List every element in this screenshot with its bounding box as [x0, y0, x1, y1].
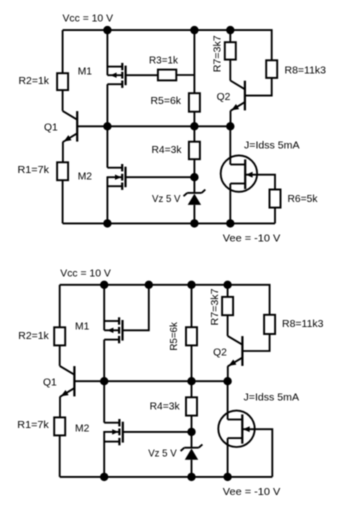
wire	[191, 416, 193, 448]
svg-text:Vcc = 10 V: Vcc = 10 V	[63, 14, 114, 25]
wire	[74, 380, 227, 382]
junction Q1 base mid rail (bottom)	[101, 378, 108, 385]
transistor Q1 (bottom)	[73, 366, 75, 396]
wire	[126, 176, 195, 178]
junction R5/R4 mid rail (bottom)	[188, 378, 195, 385]
wire	[59, 345, 61, 366]
svg-text:R8=11k3: R8=11k3	[285, 65, 327, 76]
junction R5/Vcc rail (bottom)	[188, 281, 195, 288]
wire	[191, 345, 193, 381]
svg-text:R4=3k: R4=3k	[152, 145, 183, 156]
wire	[103, 285, 105, 331]
JFET J (top)	[221, 155, 257, 191]
transistor Q1 (top)	[76, 111, 78, 142]
wire	[77, 125, 230, 127]
wire	[59, 285, 61, 328]
wire	[103, 381, 105, 423]
junction R5/R4 mid rail (top)	[191, 123, 198, 130]
wire	[245, 175, 275, 190]
svg-text:R2=1k: R2=1k	[19, 76, 50, 87]
svg-text:R6=5k: R6=5k	[288, 194, 319, 205]
svg-text:R1=7k: R1=7k	[17, 420, 49, 431]
wire	[106, 126, 108, 167]
wire	[274, 208, 276, 224]
svg-text:Vcc = 10 V: Vcc = 10 V	[60, 268, 111, 279]
resistor R8 (top)	[266, 60, 277, 78]
resistor R6 (top)	[270, 190, 281, 208]
wire	[193, 159, 195, 193]
svg-text:Q2: Q2	[217, 92, 231, 103]
svg-text:R8=11k3: R8=11k3	[282, 319, 324, 330]
svg-text:J=Idss 5mA: J=Idss 5mA	[244, 392, 300, 403]
wire	[191, 381, 193, 397]
wire	[63, 30, 272, 60]
resistor R3 (top)	[158, 70, 176, 81]
wire	[191, 460, 193, 477]
svg-text:R1=7k: R1=7k	[18, 165, 50, 176]
wire	[193, 126, 195, 141]
junction R7/Vcc rail (top)	[227, 26, 234, 33]
svg-text:R7=3k7: R7=3k7	[213, 35, 224, 72]
wire	[191, 285, 193, 327]
svg-text:M2: M2	[78, 172, 93, 183]
wire	[126, 74, 158, 76]
wire	[193, 205, 195, 224]
svg-text:Vee = -10 V: Vee = -10 V	[223, 487, 281, 498]
wire	[103, 431, 105, 477]
wire	[62, 90, 64, 111]
wire	[62, 180, 64, 223]
svg-text:Vee = -10 V: Vee = -10 V	[223, 233, 281, 244]
svg-text:Vz 5 V: Vz 5 V	[152, 194, 181, 205]
wire	[60, 285, 270, 315]
junction R5/Vcc rail (top)	[191, 26, 198, 33]
wire	[103, 340, 105, 382]
zener diode Vz (top)	[187, 192, 201, 194]
wire	[63, 222, 275, 224]
junction Q1 base mid rail (top)	[104, 123, 111, 130]
junction JFET source/Vee rail (top)	[227, 220, 234, 227]
wire	[245, 78, 272, 96]
wire	[227, 366, 229, 381]
resistor R4 (bottom)	[186, 397, 197, 415]
wire	[106, 176, 108, 223]
resistor R7 (bottom)	[222, 297, 233, 315]
svg-text:M1: M1	[75, 322, 90, 333]
junction zener anode/Vee rail (bottom)	[188, 473, 195, 480]
junction M2 source/Vee rail (top)	[104, 220, 111, 227]
wire	[229, 30, 231, 42]
wire	[229, 126, 231, 164]
transistor Q2 (top)	[244, 81, 246, 111]
resistor R5 (top)	[189, 93, 200, 112]
wire	[123, 285, 149, 331]
wire	[230, 111, 232, 127]
junction M2 source/Vee rail (bottom)	[101, 473, 108, 480]
svg-text:R4=3k: R4=3k	[150, 401, 181, 412]
wire	[242, 429, 272, 477]
wire	[227, 381, 229, 419]
svg-text:Q1: Q1	[44, 123, 58, 134]
junction M1 gate/Vcc rail (bottom)	[145, 281, 152, 288]
wire	[62, 30, 64, 73]
wire	[227, 285, 229, 297]
junction M2 gate/R4/zener (bottom)	[188, 428, 195, 435]
transistor Q2 (bottom)	[241, 336, 243, 366]
wire	[193, 30, 195, 93]
wire	[193, 112, 195, 127]
svg-text:Q1: Q1	[43, 377, 57, 388]
junction M1 drain/Vcc rail (bottom)	[101, 281, 108, 288]
zener diode Vz (bottom)	[184, 447, 198, 449]
resistor R8 (bottom)	[264, 315, 275, 334]
wire	[242, 334, 269, 351]
svg-text:Vz 5 V: Vz 5 V	[148, 449, 177, 460]
wire	[227, 315, 229, 336]
svg-text:Q2: Q2	[213, 347, 227, 358]
wire	[59, 397, 61, 418]
svg-text:R7=3k7: R7=3k7	[210, 288, 221, 325]
wire	[60, 476, 273, 478]
resistor R5 (bottom)	[186, 327, 197, 345]
wire	[227, 438, 229, 477]
junction Q2 emitter/JFET drain mid rail (bottom)	[224, 378, 231, 385]
junction M1 drain/Vcc rail (top)	[104, 26, 111, 33]
resistor R2 (top)	[57, 73, 68, 90]
wire	[229, 184, 231, 224]
resistor R1 (bottom)	[54, 417, 65, 435]
wire	[176, 74, 194, 76]
resistor R2 (bottom)	[54, 327, 65, 345]
junction R7/Vcc rail (bottom)	[224, 281, 231, 288]
resistor R4 (top)	[189, 142, 200, 160]
junction zener anode/Vee rail (top)	[191, 220, 198, 227]
wire	[59, 435, 61, 477]
wire	[62, 142, 64, 163]
svg-text:R2=1k: R2=1k	[18, 331, 49, 342]
junction Q2 emitter/JFET drain mid rail (top)	[227, 123, 234, 130]
svg-text:R5=6k: R5=6k	[151, 96, 182, 107]
resistor R1 (top)	[57, 162, 68, 180]
wire	[106, 84, 108, 126]
svg-text:M2: M2	[75, 424, 90, 435]
wire	[106, 30, 108, 75]
svg-text:R3=1k: R3=1k	[149, 55, 179, 66]
svg-text:J=Idss 5mA: J=Idss 5mA	[244, 141, 300, 152]
svg-text:R5=6k: R5=6k	[169, 321, 180, 350]
resistor R7 (top)	[225, 42, 236, 59]
JFET J (bottom)	[218, 411, 254, 447]
svg-text:M1: M1	[78, 67, 93, 78]
transistor M1 (bottom)	[104, 320, 119, 322]
junction JFET source/Vee rail (bottom)	[224, 473, 231, 480]
wire	[229, 60, 231, 81]
transistor M1 (top)	[107, 66, 122, 68]
junction M2 gate/R4/zener (top)	[191, 174, 198, 181]
wire	[123, 431, 192, 433]
